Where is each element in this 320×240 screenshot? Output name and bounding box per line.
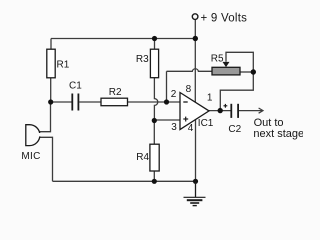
svg-text:R5: R5 <box>211 54 224 65</box>
microphone notch <box>37 133 42 136</box>
svg-text:C1: C1 <box>69 81 82 92</box>
wire op-amp pin 8 to rail <box>194 39 196 103</box>
resistor R3 <box>150 49 158 77</box>
node R5 right junction dot <box>251 69 256 74</box>
wire bottom ground rail <box>53 180 196 182</box>
wire R3 top <box>154 39 156 50</box>
wire feedback node2 up <box>166 71 168 102</box>
op-amp non-inverting input plus sign <box>183 117 188 122</box>
wire mic top stub to node A <box>39 102 51 132</box>
op-amp inverting input minus sign <box>183 101 187 103</box>
wire feedback return to output <box>220 72 253 111</box>
wire R3 bottom with hop over pin2 wire <box>154 78 157 121</box>
svg-text:R4: R4 <box>136 152 149 163</box>
node +9V rail junction dot <box>193 36 198 41</box>
wire top rail +9V <box>51 38 195 40</box>
ground symbol <box>184 181 206 205</box>
wire +9V terminal <box>194 19 196 38</box>
node pin2 junction dot <box>164 99 169 104</box>
svg-text:8: 8 <box>186 84 192 95</box>
wire op-amp output to C2 <box>209 110 232 112</box>
wire node A to C1 <box>51 101 72 103</box>
resistor R1 <box>47 49 55 78</box>
microphone MIC body <box>26 125 40 146</box>
svg-text:2: 2 <box>171 89 177 100</box>
wire node 3 to op-amp pin 3 <box>154 119 180 121</box>
svg-text:R1: R1 <box>57 60 70 71</box>
wire C2 to out arrow <box>239 110 263 112</box>
wire mic bottom stub to ground rail <box>39 137 53 181</box>
svg-text:+ 9 Volts: + 9 Volts <box>201 12 248 24</box>
resistor R2 <box>101 98 128 106</box>
wire R4 bottom to ground rail <box>153 171 155 181</box>
wire R1 top <box>50 39 52 50</box>
wire R2 to op-amp pin 2 <box>128 101 181 103</box>
wire feedback horizontal with hop over pin8 wire <box>167 69 213 72</box>
svg-text:MIC: MIC <box>21 151 40 162</box>
wire op-amp pin 4 to ground node <box>195 120 197 182</box>
svg-text:IC1: IC1 <box>198 118 214 129</box>
svg-text:4: 4 <box>188 123 194 134</box>
wire C1 to R2 <box>79 101 101 103</box>
node output junction dot <box>218 108 223 113</box>
capacitor C1 plates <box>72 94 78 111</box>
out arrowhead <box>259 108 263 113</box>
node R3 rail junction dot <box>152 36 157 41</box>
node A junction dot (R1/C1/mic) <box>48 99 53 104</box>
svg-text:next stage.: next stage. <box>253 128 303 140</box>
capacitor C2 polarity plus <box>224 104 228 108</box>
op-amp IC1 triangle <box>180 93 209 130</box>
+9V terminal circle <box>192 14 198 20</box>
capacitor C2 plates <box>231 104 238 118</box>
wire R1 bottom to node A <box>50 78 52 102</box>
svg-text:C2: C2 <box>228 124 241 135</box>
svg-text:R3: R3 <box>136 54 149 65</box>
svg-text:1: 1 <box>207 93 213 104</box>
resistor R4 <box>150 144 159 171</box>
node ground junction dot <box>193 179 198 184</box>
svg-text:3: 3 <box>171 122 177 133</box>
node pin3 junction dot <box>152 118 157 123</box>
svg-text:R2: R2 <box>109 87 122 98</box>
potentiometer R5 wiper arrow <box>223 62 230 67</box>
wire R5 right to junction <box>240 71 253 73</box>
potentiometer R5 body <box>212 67 240 75</box>
wire node 3 to R4 <box>153 121 155 145</box>
node R4 ground rail junction dot <box>152 179 157 184</box>
wire R5 wiper loop <box>226 52 253 72</box>
